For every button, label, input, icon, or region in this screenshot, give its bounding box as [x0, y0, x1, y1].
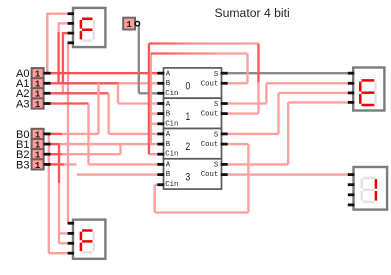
display U8 pin 1 [348, 173, 355, 176]
adder U1 pin B [157, 112, 164, 115]
input pin B0 stub [44, 132, 51, 135]
wire net B0 riser to displayBL stub4 x=48.8 [48, 134, 50, 253]
display U6 (B value, shows F) segment b off [92, 232, 95, 241]
wire net S3 row y=164.4 [228, 163, 289, 165]
display U6 pin 3 [68, 242, 74, 245]
wire Cin0 gray horizontal y=93.3 [139, 92, 158, 94]
wire net B2 riser to adder2.B x=120.5 [119, 144, 121, 154]
wire net S1 to displayE y=83.3 [266, 82, 350, 84]
wire net S2 riser x=278.5 [277, 93, 279, 134]
wire net B3 row y=164.4 [50, 163, 64, 165]
adder U1 body [164, 98, 222, 128]
display U8 (carry out, shows 1) segment g off [363, 189, 375, 192]
display U8 (carry out, shows 1) segment c lit [375, 191, 378, 201]
wire net S1 riser x=266.4 [265, 83, 267, 103]
wire net A1 riser to adder1.A x=118 [117, 83, 119, 103]
wire adder2.A feed y=133.9 [109, 133, 158, 135]
display U6 (B value, shows F) segment a lit [82, 229, 92, 232]
wire adder1.A feed y=103.5 [118, 102, 158, 104]
display U6 (B value, shows F) segment f lit [80, 232, 83, 241]
svg-text:A: A [166, 162, 171, 170]
display U8 (carry out, shows 1) segment a off [363, 177, 375, 180]
display U7 (sum, shows E) segment d lit [362, 104, 375, 107]
wire row y=83.3 A1 / adder0.B [50, 82, 119, 84]
wire Cin1 feed y=123.8 [151, 123, 158, 125]
input pin B2 stub [44, 153, 51, 156]
display U8 (carry out, shows 1) segment d off [363, 201, 375, 204]
wire net Cout1 top row y=43.5 [149, 42, 259, 44]
display U8 pin 3 [348, 193, 355, 196]
adder U2 pin Cout [221, 143, 228, 146]
display U6 (B value, shows F) segment d off [82, 251, 92, 254]
adder U1 pin Cin [157, 122, 164, 125]
adder U3 pin Cin [157, 183, 164, 186]
display U7 pin 1 [348, 72, 354, 75]
display U5 pin 2 [68, 22, 74, 25]
adder U0 body [164, 68, 222, 98]
display U8 (carry out, shows 1) segment b lit [375, 179, 378, 189]
wire net B0 row y=133.9 [50, 133, 62, 135]
display U5 (A value, shows F) segment b off [92, 20, 95, 29]
svg-text:Cout: Cout [201, 171, 219, 179]
wire displayTL stub2 horizontal y=23.4 [58, 22, 70, 24]
svg-text:Cin: Cin [165, 151, 178, 159]
display U5 pin 1 [68, 12, 74, 15]
wire net Cout1 vertical x=148.9 [148, 44, 150, 155]
wire net B1 riser to displayBL stubs x=59.0 [58, 144, 60, 185]
svg-text:Cout: Cout [201, 111, 219, 119]
svg-text:S: S [214, 71, 219, 79]
wire net Cout2 up to Cin3 x=154.7 [154, 185, 156, 213]
display U7 (sum, shows E) segment b off [374, 82, 377, 92]
display U7 (sum, shows E) segment g lit [362, 91, 375, 94]
svg-text:3: 3 [186, 171, 191, 183]
input pin A3 stub [44, 102, 51, 105]
svg-text:1: 1 [35, 100, 41, 110]
svg-text:S: S [214, 131, 219, 139]
svg-text:B: B [166, 171, 171, 179]
adder U2 pin Cin [157, 153, 164, 156]
display U5 (A value, shows F) segment c off [92, 31, 95, 40]
adder U2 body [164, 129, 222, 159]
wire net A2 row y=93.3 [50, 92, 109, 94]
display U6 (B value, shows F) body [73, 220, 105, 259]
svg-text:Cin: Cin [165, 90, 178, 98]
input pin B2 square [32, 149, 44, 159]
svg-text:S: S [214, 162, 219, 170]
adder U1 pin Cout [221, 112, 228, 115]
display U8 (carry out, shows 1) segment e off [361, 191, 364, 201]
wire net Cout2 bottom row y=212.5 [155, 211, 249, 213]
input pin B1 stub [44, 143, 51, 146]
svg-text:1: 1 [186, 111, 191, 123]
display U8 pin 2 [348, 183, 355, 186]
wire net B2 row y=154.2 [50, 153, 62, 155]
display U7 (sum, shows E) segment c off [374, 94, 377, 104]
wire net A0 row y=73.2 [50, 72, 158, 74]
wire adder1.B feed y=113.6 [151, 112, 158, 114]
input pin B1 square [32, 139, 44, 149]
input pin B0 square [32, 129, 44, 139]
input pin B3 square [32, 159, 44, 169]
display U5 pin 3 [68, 32, 74, 35]
wire net Cout0/B1 vertical x=150.9 [150, 54, 152, 145]
wire net Cout0 from stub y=83.3 [228, 82, 248, 84]
wire net A2 riser x=62.9 [62, 33, 64, 84]
wire adder3.A feed y=164.4 [89, 163, 158, 165]
display U6 (B value, shows F) segment e lit [80, 243, 83, 252]
wire net Cout0 top row y=53.5 [151, 52, 248, 54]
display U5 (A value, shows F) segment a lit [82, 18, 92, 21]
svg-text:B3: B3 [16, 159, 29, 171]
wire displayBL stub3 horizontal y=243.3 [59, 242, 69, 244]
display U5 (A value, shows F) segment e lit [80, 31, 83, 40]
wire net A3 riser x=88.5 [87, 104, 89, 165]
input pin CIN square [123, 18, 135, 30]
svg-text:Cout: Cout [201, 80, 219, 88]
display U6 pin 2 [68, 232, 74, 235]
display U5 (A value, shows F) body [73, 8, 105, 47]
wire net S3 to displayE y=102.4 [288, 101, 350, 103]
svg-text:1: 1 [35, 161, 41, 171]
svg-text:A: A [166, 131, 171, 139]
input pin A3 square [32, 98, 44, 108]
adder U3 pin S [221, 163, 228, 166]
svg-text:Cin: Cin [165, 181, 178, 189]
svg-text:0: 0 [186, 81, 191, 93]
display U6 (B value, shows F) segment c off [92, 243, 95, 252]
wire net S3 riser x=288.2 [287, 102, 289, 164]
input pin CIN output circle [135, 21, 139, 25]
svg-text:A3: A3 [16, 98, 29, 110]
wire net Cout2 from stub y=144.1 [228, 143, 249, 145]
wire net Cout1 riser x=258.5 [257, 44, 259, 84]
display U5 (A value, shows F) segment d off [82, 39, 92, 42]
display U7 pin 4 [348, 101, 354, 104]
adder U3 pin Cout [221, 173, 228, 176]
wire net B1 row y=144.1 [50, 143, 60, 145]
input pin A2 square [32, 88, 44, 98]
wire net S1 row y=103.5 [228, 102, 267, 104]
adder U2 pin B [157, 143, 164, 146]
adder U3 pin B [157, 173, 164, 176]
wire net Cout1 from stub y=113.6 [228, 112, 259, 114]
input pin A1 square [32, 78, 44, 88]
display U6 (B value, shows F) segment g lit [82, 240, 92, 243]
wire net A0 riser x=47.3 [46, 14, 48, 72]
display U8 (carry out, shows 1) body [354, 167, 388, 210]
input pin A0 square [32, 68, 44, 78]
adder U2 pin A [157, 132, 164, 135]
display U7 (sum, shows E) segment f lit [359, 82, 362, 92]
input pin B3 stub [44, 163, 51, 166]
input pin A2 stub [44, 92, 51, 95]
wire net Cout2 down x=248.4 [247, 144, 249, 212]
wire net B0 riser to adder0.B x=98.5 [97, 83, 99, 134]
wire Cin0 gray vertical from pin x=138.8 [138, 24, 140, 94]
adder U2 pin S [221, 132, 228, 135]
adder U3 body [164, 159, 222, 189]
wire displayBL stub2 horizontal y=233.4 [59, 232, 69, 234]
wire net displayTL stub4 / displayBL stub1 long riser x=68.0 [67, 43, 69, 223]
display U5 pin 4 [68, 41, 74, 44]
display U7 pin 2 [348, 82, 354, 85]
svg-text:Sumator 4 biti: Sumator 4 biti [215, 6, 290, 20]
adder U1 pin S [221, 102, 228, 105]
svg-text:Cout: Cout [201, 141, 219, 149]
display U7 (sum, shows E) segment a lit [362, 79, 375, 82]
adder U3 pin A [157, 163, 164, 166]
wire net Cout0 riser x=247.5 [246, 54, 248, 84]
wire adder3.B feed y=174.6 [77, 173, 158, 175]
display U5 (A value, shows F) segment f lit [80, 20, 83, 29]
adder U1 pin A [157, 102, 164, 105]
svg-text:B: B [166, 141, 171, 149]
wire net S2 row y=133.9 [228, 133, 279, 135]
svg-text:B: B [166, 111, 171, 119]
adder U0 pin Cin [157, 92, 164, 95]
svg-text:1: 1 [126, 20, 132, 30]
adder U0 pin B [157, 82, 164, 85]
display U5 (A value, shows F) segment g lit [82, 28, 92, 31]
adder U0 pin Cout [221, 82, 228, 85]
input pin A1 stub [44, 82, 51, 85]
svg-text:B: B [166, 80, 171, 88]
input pin A0 stub [44, 72, 51, 75]
wire net S0 gray row y=73.2 [228, 72, 351, 74]
wire net S2 to displayE y=92.9 [279, 92, 351, 94]
wire Cin3 feed y=184.7 [155, 184, 158, 186]
wire net Cout3 row to displayBR y=174.6 [228, 173, 351, 175]
wire net A1 riser x=58.6 [57, 23, 59, 33]
wire Cin2 feed y=154.2 [149, 153, 158, 155]
display U7 (sum, shows E) segment e lit [359, 94, 362, 104]
svg-text:Cin: Cin [165, 120, 178, 128]
svg-text:A: A [166, 101, 171, 109]
display U7 pin 3 [348, 92, 354, 95]
wire displayBL stub4 horizontal y=253.2 [49, 252, 69, 254]
adder U0 pin S [221, 72, 228, 75]
svg-text:S: S [214, 101, 219, 109]
wire displayTL stub1 horizontal y=13.7 [46, 13, 69, 15]
wire net A3 row y=103.5 [50, 102, 89, 104]
display U6 pin 4 [68, 252, 74, 255]
svg-text:A: A [166, 71, 171, 79]
svg-text:2: 2 [186, 141, 191, 153]
adder U0 pin A [157, 72, 164, 75]
display U8 (carry out, shows 1) segment f off [361, 179, 364, 189]
display U6 pin 1 [68, 222, 74, 225]
wire net A2 riser to adder2.A x=108.6 [107, 93, 109, 134]
display U8 pin 4 [348, 203, 355, 206]
wire displayTL stub3 horizontal y=33.1 [62, 32, 69, 34]
display U7 (sum, shows E) body [353, 68, 384, 111]
